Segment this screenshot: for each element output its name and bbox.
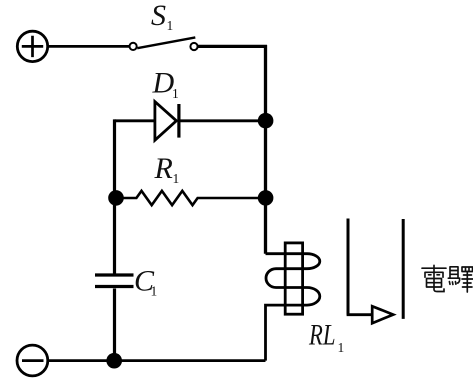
character 驛 (448, 267, 473, 292)
relay core bar (285, 243, 302, 314)
label 電驛 (relay) (422, 265, 473, 292)
diode D1 (155, 102, 179, 141)
svg-text:1: 1 (167, 18, 174, 33)
svg-text:1: 1 (172, 86, 179, 101)
battery negative terminal (17, 345, 48, 376)
battery positive terminal (17, 31, 47, 61)
label D1 (152, 67, 179, 101)
wire diode to node (179, 119, 266, 122)
node bottom (106, 353, 122, 369)
svg-text:1: 1 (338, 340, 345, 355)
relay contact right pole (402, 219, 405, 319)
relay contact arrow (372, 306, 393, 323)
label S1 (151, 0, 173, 33)
label R1 (154, 152, 180, 186)
relay contact actuating wire (347, 313, 373, 316)
svg-text:S: S (151, 0, 166, 32)
resistor R1 (116, 191, 266, 205)
node R1 right (258, 190, 274, 206)
relay contact left pole (347, 219, 350, 315)
svg-text:1: 1 (173, 171, 180, 186)
switch S1 (130, 37, 198, 50)
wire capacitor to bottom (113, 289, 116, 362)
node R1 left (108, 190, 124, 206)
svg-text:1: 1 (151, 284, 158, 299)
label RL1 (308, 319, 344, 356)
svg-text:RL: RL (308, 319, 335, 352)
label C1 (134, 264, 157, 298)
node at diode / right branch (258, 113, 274, 129)
capacitor C1 (95, 275, 134, 287)
wire from + terminal to switch (48, 45, 129, 48)
character 電 (422, 265, 446, 291)
relay coil RL1 winding (266, 254, 320, 361)
svg-text:R: R (154, 152, 173, 185)
wire diode row left (115, 119, 155, 122)
bottom wire (48, 359, 265, 362)
wire from switch to top-right corner and down right branch (198, 45, 268, 254)
left vertical wire (diode row to capacitor) (113, 119, 116, 273)
